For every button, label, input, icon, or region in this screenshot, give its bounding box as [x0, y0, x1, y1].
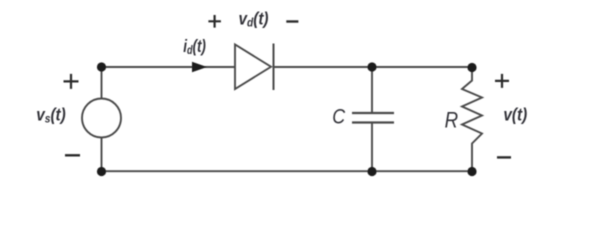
svg-text:id(t): id(t) [183, 37, 206, 57]
svg-text:R: R [445, 109, 459, 133]
svg-text:C: C [332, 105, 346, 129]
svg-text:v(t): v(t) [503, 104, 527, 124]
svg-text:vs(t): vs(t) [36, 104, 66, 125]
svg-text:vd(t): vd(t) [239, 8, 269, 29]
